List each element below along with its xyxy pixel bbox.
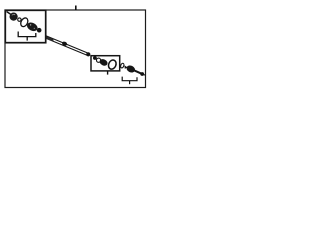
bearing (dark circle, box A): [10, 13, 18, 21]
outer joint housing (dark ellipse): [125, 64, 136, 74]
stop ring (dark dot, box A): [37, 28, 42, 33]
tripod joint body (dark ellipse, box A): [26, 21, 40, 33]
tip end line: [144, 74, 146, 77]
damper collar on shaft: [61, 41, 67, 47]
stub collar (dark tip): [140, 72, 144, 76]
spline section shading at shaft start: [46, 36, 53, 41]
callout tick 1 (top center): [75, 6, 77, 11]
callout bracket under outer joint: [122, 77, 137, 81]
washer (right of box B): [120, 63, 124, 69]
small clamp (dark dot, box B): [93, 56, 97, 60]
highlight specs on tripod body: [30, 24, 31, 25]
bracket center tick (box A): [26, 37, 28, 41]
boot (dark ellipse, box B): [98, 58, 108, 67]
bracket center tick (outer joint): [129, 81, 131, 85]
arrow mark: [124, 65, 127, 69]
inset box A (inboard joint parts, top-left): [5, 10, 45, 42]
small ring (box B): [97, 58, 101, 62]
leader stub into box A corner: [7, 12, 12, 15]
stop bead at shaft end: [86, 52, 90, 56]
callout bracket under box A parts: [18, 32, 36, 37]
large clamp ring O (box B): [107, 59, 117, 71]
axle shaft (diagonal, two parallel edges): [46, 36, 88, 56]
inset box B (boot kit, bottom-right): [91, 56, 120, 71]
stub axle from outer joint: [135, 71, 142, 74]
tick under box B: [107, 71, 109, 75]
large ring / boot band (box A): [19, 17, 29, 28]
small snap ring (box A): [18, 18, 21, 21]
